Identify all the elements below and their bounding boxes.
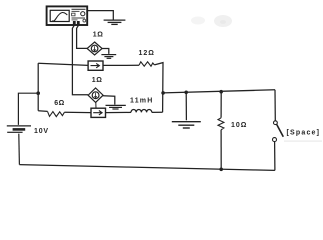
svg-text:10Ω: 10Ω xyxy=(231,122,247,129)
wire inductor to vertical xyxy=(152,111,163,113)
ground G1 xyxy=(104,20,126,24)
ground G2 xyxy=(101,55,116,59)
battery V1 xyxy=(7,93,38,164)
node dot left junction xyxy=(36,91,40,95)
controlled source U1 diamond xyxy=(87,42,102,55)
resistor R 12Ω zigzag xyxy=(139,62,154,66)
ground G3 xyxy=(106,105,126,109)
svg-text:6Ω: 6Ω xyxy=(54,100,65,107)
resistor R 6Ω zigzag xyxy=(48,111,65,116)
wire down to resistor 10Ω xyxy=(220,92,222,118)
wire row1 left segment xyxy=(38,63,88,65)
wire left vertical branch xyxy=(37,63,39,110)
svg-text:1Ω: 1Ω xyxy=(92,77,103,84)
bus wire to right xyxy=(163,90,275,93)
wire diamond2 to ground G3 xyxy=(103,96,115,105)
wire scope terminal A down to diamond2 xyxy=(72,25,88,94)
wire switch to bottom corner xyxy=(274,142,276,171)
svg-text:1Ω: 1Ω xyxy=(93,32,104,39)
wire down to ground G4 xyxy=(185,92,187,120)
controlled source U2 diamond xyxy=(88,88,103,108)
node dot ground tap xyxy=(184,91,188,95)
node dot 10Ω tap xyxy=(219,90,223,94)
svg-text:12Ω: 12Ω xyxy=(139,50,155,57)
svg-text:10V: 10V xyxy=(34,128,49,135)
wire resistor 10Ω to bottom xyxy=(220,130,222,170)
wire scope terminal B down to diamond1 xyxy=(77,25,88,48)
wire scope to ground G1 xyxy=(88,11,113,20)
svg-text:11mH: 11mH xyxy=(130,98,153,105)
switch J1 (Space) xyxy=(273,121,284,142)
svg-text:[Space]: [Space] xyxy=(287,129,321,136)
wire row2 left stub xyxy=(38,110,47,113)
ground G4 xyxy=(172,122,201,128)
wire bus corner down to switch xyxy=(274,90,276,121)
wire row2 mid segment xyxy=(106,111,132,113)
ammeter box A1 (current sense) xyxy=(88,61,103,70)
inductor L 11mH xyxy=(131,109,152,112)
wire row1 right + vertical to junction xyxy=(154,63,163,113)
node dot bottom xyxy=(219,168,223,172)
wire row1 mid segment xyxy=(103,64,139,66)
resistor R 10Ω vertical zigzag xyxy=(218,118,224,130)
oscilloscope XSC1 xyxy=(47,6,88,25)
wire diamond1 to ground G2 xyxy=(102,49,109,54)
wire bottom rail xyxy=(19,165,275,171)
node dot main junction xyxy=(161,91,165,95)
wire row2 to ammeter box2 xyxy=(64,111,91,113)
ammeter box A2 (current sense) xyxy=(91,108,106,117)
